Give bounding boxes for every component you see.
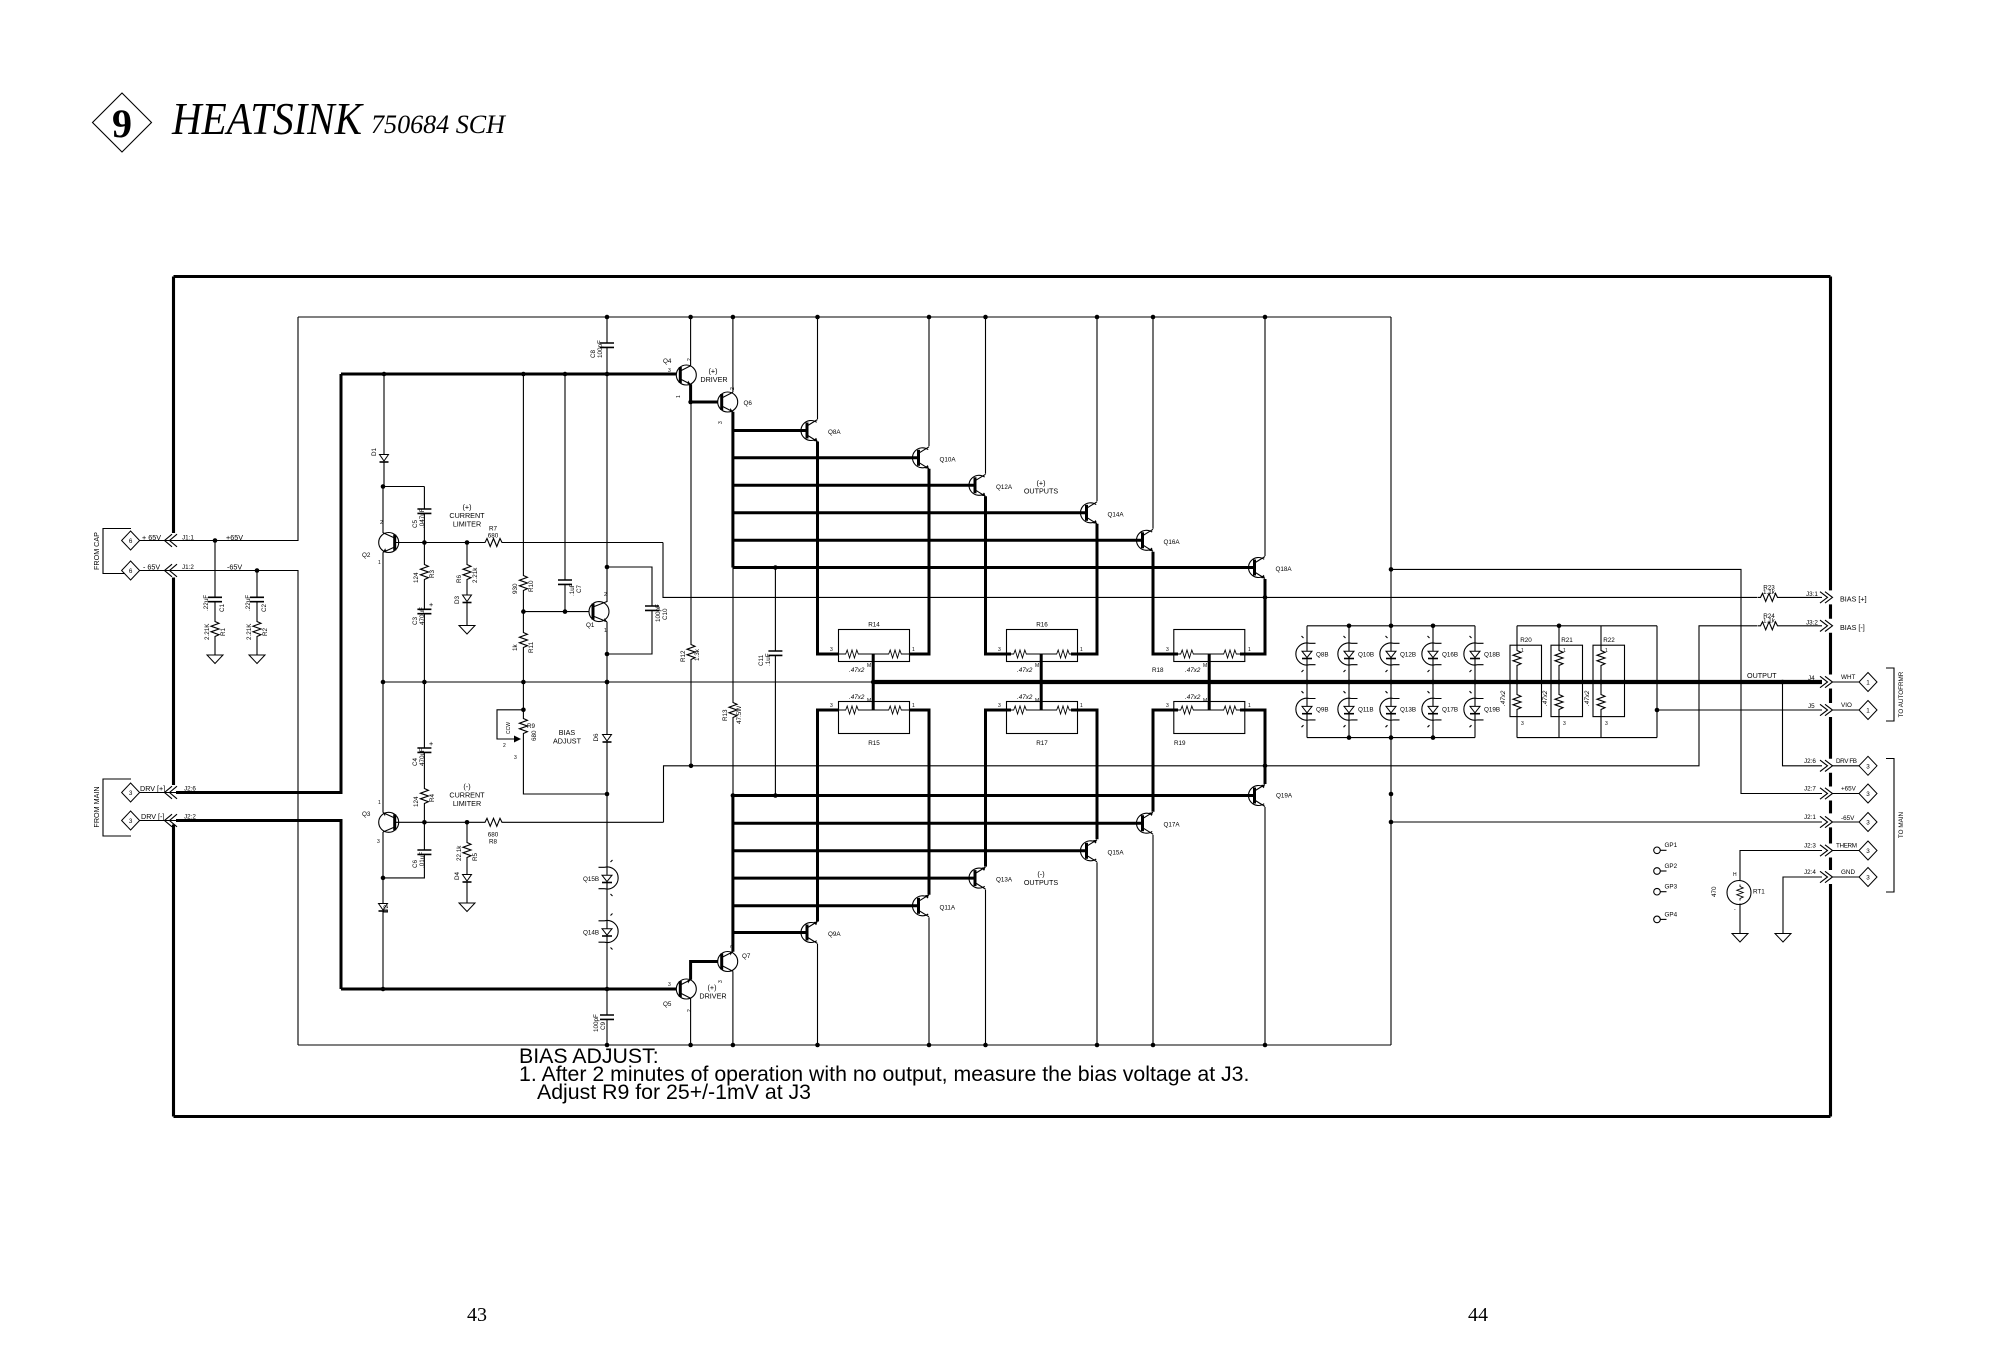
svg-text:C10: C10 [662, 608, 669, 620]
wire Q15A collector [1096, 862, 1098, 1045]
wire Q15A emitter to R17 [1071, 710, 1097, 839]
wire Q17A emitter to R19 [1153, 710, 1178, 812]
ground below R2 [249, 655, 265, 664]
svg-text:M: M [1035, 698, 1039, 704]
svg-text:Q19A: Q19A [1276, 793, 1293, 800]
label J5 VIO [1808, 702, 1852, 710]
connector J1:2 diamond 6 [122, 561, 140, 580]
wire -65V bottom rail [298, 1044, 1391, 1046]
svg-text:-65V: -65V [227, 562, 242, 571]
ground below D3 [459, 626, 475, 635]
wire Q8A emitter to R14 [818, 442, 840, 655]
transistor Q2 [362, 487, 399, 683]
svg-text:R17: R17 [1036, 740, 1048, 747]
wire R15 center tap [872, 682, 875, 710]
node C11 bottom [773, 793, 778, 798]
wire B-grid center column [1390, 569, 1392, 1045]
connector J2:6 diamond 3 [1859, 756, 1877, 775]
chevron J2:3 [1820, 845, 1833, 856]
svg-text:3: 3 [1166, 703, 1169, 709]
wire Q14A emitter to R16 [1071, 524, 1097, 654]
node Q1 emitter rail [605, 680, 610, 685]
svg-text:9: 9 [112, 101, 132, 146]
node Q13A collector [983, 1043, 988, 1048]
svg-text:Adjust R9 for 25+/-1mV at J3: Adjust R9 for 25+/-1mV at J3 [537, 1080, 811, 1104]
svg-text:CCW: CCW [506, 722, 512, 734]
label (+) current limiter [449, 503, 485, 529]
svg-text:R8: R8 [489, 839, 498, 846]
svg-text:.47x2: .47x2 [849, 694, 865, 701]
wire R16 center tap [1040, 654, 1043, 682]
node R10/R11 [521, 609, 526, 614]
svg-text:Q13B: Q13B [1400, 707, 1416, 714]
svg-text:124: 124 [413, 796, 420, 807]
svg-text:RT1: RT1 [1753, 889, 1765, 896]
svg-text:1: 1 [378, 560, 381, 566]
node Q11A collector [927, 1043, 932, 1048]
svg-text:.1uF: .1uF [765, 653, 772, 666]
svg-text:3: 3 [830, 647, 833, 653]
label (-) driver [699, 983, 726, 1001]
wire DRV FB tap [1783, 682, 1823, 766]
node Q8A collector [815, 315, 820, 320]
transistor Q4 [663, 358, 696, 398]
svg-text:Q18A: Q18A [1276, 566, 1293, 573]
svg-text:Q6: Q6 [744, 400, 753, 407]
svg-text:1: 1 [912, 647, 915, 653]
svg-text:+65V: +65V [1841, 786, 1857, 793]
node B-grid column mark [1389, 792, 1394, 797]
resistor R21 [1542, 624, 1583, 738]
wire GND line [1783, 877, 1822, 934]
transistor Q10B [1338, 624, 1374, 738]
chevron J2:6 [165, 786, 178, 799]
svg-text:R2: R2 [262, 627, 269, 636]
capacitor C10 [607, 567, 669, 654]
svg-text:3: 3 [668, 368, 671, 374]
svg-text:680: 680 [531, 730, 538, 741]
svg-text:OUTPUTS: OUTPUTS [1024, 487, 1059, 496]
chevron J2:1 [1820, 816, 1833, 827]
wire bias- sense line [664, 626, 1758, 823]
capacitor C8 [590, 317, 614, 374]
wire THERM line [1740, 851, 1822, 882]
svg-text:3: 3 [998, 703, 1001, 709]
resistor R1 [204, 619, 227, 655]
wire Q5 emitter [690, 998, 692, 1045]
wire (-) drive rail thick [341, 988, 676, 991]
svg-text:3: 3 [830, 703, 833, 709]
node Q19A emitter bias- tap [1263, 764, 1268, 769]
wire R-grid right leg [1656, 626, 1658, 738]
diode D4 [454, 869, 472, 903]
wire J1:1 entry [140, 540, 215, 542]
resistor R8 [482, 818, 505, 845]
wire Q4 collector [690, 317, 692, 366]
connector J2:4 diamond 3 [1859, 868, 1877, 887]
svg-text:J3:2: J3:2 [1806, 619, 1818, 626]
svg-text:2.21K: 2.21K [204, 623, 211, 640]
diode D3 [454, 595, 472, 626]
svg-text:Q3: Q3 [362, 811, 371, 818]
svg-text:Q2: Q2 [362, 552, 371, 559]
label J4 WHT [1808, 674, 1855, 682]
svg-text:R21: R21 [1561, 637, 1573, 644]
svg-text:.47x2: .47x2 [849, 667, 865, 674]
wire R-grid bottom bus [1517, 737, 1657, 739]
svg-text:.22uF: .22uF [203, 595, 210, 611]
node base/C4 [422, 820, 427, 825]
wire DRV- entry [140, 820, 176, 822]
svg-text:D2: D2 [383, 904, 390, 913]
svg-text:Q8B: Q8B [1316, 652, 1329, 659]
label R19 value [1185, 694, 1207, 704]
wire Q10A collector [928, 317, 930, 446]
wire J1:2 entry [140, 570, 257, 572]
wire (+) drive rail thick [341, 373, 676, 376]
svg-text:1: 1 [1080, 703, 1083, 709]
svg-text:Q1: Q1 [586, 622, 595, 629]
chevron J2:2 [165, 814, 178, 827]
transistor Q1 [586, 592, 609, 682]
svg-text:J2:1: J2:1 [1804, 814, 1816, 821]
transistor Q9A [801, 922, 841, 944]
transistor Q16A [1136, 529, 1180, 551]
transistor Q11A [912, 895, 955, 917]
resistor R19 [1166, 702, 1251, 748]
svg-text:GP1: GP1 [1665, 842, 1678, 849]
svg-text:1.1k: 1.1k [1763, 618, 1776, 625]
transistor Q16B [1422, 624, 1458, 738]
node base/R5 [465, 820, 470, 825]
wire J2:7 to diamond [1832, 793, 1859, 795]
wire J2:4 to diamond [1832, 876, 1859, 878]
wire (-) ladder rail 3 [733, 849, 1086, 852]
svg-text:BIAS [-]: BIAS [-] [1840, 623, 1865, 632]
svg-text:2.21K: 2.21K [246, 623, 253, 640]
wire Q16A emitter to R18 [1153, 552, 1178, 654]
svg-text:Q4: Q4 [663, 358, 672, 365]
svg-text:R12: R12 [680, 650, 687, 662]
bracket TO AUTOFRMR [1886, 668, 1905, 721]
label J3:1 BIAS+ [1806, 591, 1867, 604]
test point GP4 [1654, 911, 1678, 922]
resistor R18 [1166, 630, 1251, 662]
svg-text:100pF: 100pF [593, 1014, 600, 1032]
node base/C5 [422, 540, 427, 545]
svg-text:Q16B: Q16B [1442, 652, 1458, 659]
svg-text:LIMITER: LIMITER [453, 799, 481, 808]
svg-text:Q11A: Q11A [940, 904, 956, 911]
svg-text:M: M [1203, 698, 1207, 704]
svg-text:Q18B: Q18B [1484, 652, 1500, 659]
svg-text:GND: GND [1841, 869, 1855, 876]
ground below D4 [459, 903, 475, 912]
ground below GND line [1775, 934, 1791, 943]
svg-text:1: 1 [912, 703, 915, 709]
chevron J1:2 [165, 564, 178, 577]
chevron J5 [1820, 704, 1833, 715]
resistor R12 [680, 402, 701, 766]
svg-text:D1: D1 [371, 447, 378, 456]
capacitor C2 [245, 571, 268, 620]
wire R17 center tap [1040, 682, 1043, 710]
label (+) outputs [1024, 479, 1059, 496]
svg-text:470uF: 470uF [419, 607, 426, 625]
transistor Q12B [1380, 624, 1416, 673]
FROM MAIN bracket [92, 779, 131, 836]
bracket TO MAIN [1886, 759, 1905, 893]
node D1 top [382, 372, 387, 377]
svg-text:1k: 1k [512, 643, 519, 651]
capacitor C1 [203, 541, 226, 620]
resistor R17 [998, 702, 1083, 748]
svg-text:930: 930 [512, 583, 519, 594]
wire DRV- thick to (-) driver rail [176, 821, 341, 990]
svg-text:D4: D4 [454, 871, 461, 880]
node Q9A collector [815, 1043, 820, 1048]
wire Q7 collector ladder vertical [731, 796, 734, 952]
test point GP2 [1654, 863, 1678, 874]
resistor R5 [456, 822, 479, 869]
wire Q2 collector top link [383, 486, 424, 488]
svg-text:R7: R7 [489, 526, 498, 533]
svg-text:.47x2: .47x2 [1584, 690, 1591, 706]
wire (-) ladder rail 6 [733, 931, 807, 934]
svg-text:2: 2 [380, 520, 383, 526]
svg-text:+ 65V: + 65V [142, 533, 161, 542]
svg-text:ADJUST: ADJUST [553, 737, 582, 746]
wire (-) ladder rail 1 [733, 794, 1254, 797]
node tap R18/R19 [1207, 680, 1212, 685]
svg-text:J2:7: J2:7 [1804, 786, 1816, 793]
svg-text:J2:6: J2:6 [1804, 758, 1816, 765]
svg-text:3: 3 [718, 980, 724, 983]
wire (-) ladder rail 5 [733, 904, 918, 907]
wire Q5 collector to Q7 base [691, 962, 722, 980]
node R11 bottom [521, 680, 526, 685]
svg-text:C4: C4 [412, 757, 419, 766]
svg-text:1: 1 [1563, 648, 1566, 654]
transistor Q17B [1422, 680, 1458, 740]
wire -65V line [1391, 821, 1822, 823]
node Q7 emitter rail [731, 1043, 736, 1048]
svg-text:M: M [867, 698, 871, 704]
capacitor C6 [383, 822, 431, 878]
wire Q10A emitter to R14 [909, 469, 929, 654]
svg-text:3: 3 [1866, 848, 1870, 855]
note BIAS ADJUST [519, 1044, 1249, 1104]
wire DRV+ thick to (+) driver rail [176, 374, 341, 793]
svg-text:R1: R1 [220, 627, 227, 636]
svg-text:VIO: VIO [1841, 702, 1852, 709]
node Q18A collector [1263, 315, 1268, 320]
svg-text:GP3: GP3 [1665, 884, 1678, 891]
wire Q2 base line [395, 542, 663, 544]
node tap R16/R17 [1039, 680, 1044, 685]
svg-text:R6: R6 [456, 574, 463, 583]
svg-text:.47x2: .47x2 [1542, 690, 1549, 706]
connector J2:2 diamond 3 [122, 811, 140, 830]
svg-text:Q11B: Q11B [1358, 707, 1374, 714]
svg-text:6: 6 [129, 538, 133, 545]
wire J2:6 to diamond [1832, 765, 1859, 767]
node tap R14/R15 [871, 680, 876, 685]
svg-text:J2:4: J2:4 [1804, 869, 1816, 876]
connector J4 diamond 1 [1859, 673, 1877, 692]
transistor Q9B [1296, 680, 1329, 728]
transistor Q11B [1338, 680, 1374, 740]
svg-text:R3: R3 [429, 569, 436, 578]
resistor R22 [1584, 626, 1625, 738]
svg-text:1.3k: 1.3k [694, 648, 701, 661]
wire Q9A collector [817, 944, 819, 1045]
wire (+) ladder rail 6 [733, 566, 1254, 569]
svg-text:Q17B: Q17B [1442, 707, 1458, 714]
svg-text:R19: R19 [1174, 740, 1186, 747]
svg-text:OUTPUT: OUTPUT [1747, 671, 1777, 680]
svg-text:R18: R18 [1152, 667, 1164, 674]
transistor Q7 [718, 945, 751, 983]
resistor R15 [830, 702, 915, 748]
node Q17A collector [1151, 1043, 1156, 1048]
capacitor C7 [558, 374, 583, 612]
wire Q12A collector [985, 317, 987, 474]
svg-text:Q15B: Q15B [583, 876, 599, 883]
svg-text:OUTPUTS: OUTPUTS [1024, 878, 1059, 887]
svg-text:100pF: 100pF [655, 604, 662, 622]
chevron J2:4 [1820, 871, 1833, 882]
label R16 value [1017, 663, 1039, 674]
svg-text:FROM MAIN: FROM MAIN [92, 786, 101, 827]
node Q14A collector [1095, 315, 1100, 320]
svg-text:D3: D3 [454, 595, 461, 604]
svg-text:.47x2: .47x2 [1017, 667, 1033, 674]
wire R-grid top bus [1517, 625, 1657, 627]
wire Q13A emitter to R17 [986, 710, 1012, 867]
svg-text:C3: C3 [412, 616, 419, 625]
wire Q16A collector [1152, 317, 1154, 529]
wire R16 terminals [986, 653, 1098, 656]
svg-text:J2:3: J2:3 [1804, 843, 1816, 850]
wire Q7 emitter [732, 971, 734, 1045]
resistor R2 [246, 619, 269, 655]
svg-text:+: + [429, 600, 433, 609]
chevron J3:1 [1820, 592, 1833, 603]
diode D6 [593, 682, 612, 794]
svg-text:Q16A: Q16A [1164, 539, 1181, 546]
ground below RT1 [1732, 934, 1748, 943]
wire J2:1 to diamond [1832, 821, 1859, 823]
svg-text:3: 3 [129, 818, 133, 825]
svg-text:C2: C2 [261, 603, 268, 612]
svg-text:2: 2 [604, 592, 607, 598]
wire (-) ladder rail 2 [733, 822, 1142, 825]
svg-text:2: 2 [503, 743, 506, 749]
node C10 bottom [605, 652, 610, 657]
wire Q9A emitter to R15 [818, 710, 840, 922]
svg-text:2: 2 [687, 1009, 693, 1012]
transistor Q8A [801, 420, 841, 442]
svg-text:J4: J4 [1808, 675, 1815, 682]
svg-text:1: 1 [676, 395, 682, 398]
node C9 top [605, 987, 610, 992]
node C7 bottom [563, 609, 568, 614]
label R14 value [849, 663, 871, 674]
wire (-) ladder rail 4 [733, 877, 975, 880]
node -65V tap [1389, 820, 1394, 825]
wire +65V to inner box [215, 317, 298, 541]
svg-text:6: 6 [129, 568, 133, 575]
svg-text:C9: C9 [600, 1021, 607, 1030]
wire Q17A collector [1152, 835, 1154, 1045]
resistor R20 [1500, 626, 1542, 738]
svg-text:R4: R4 [429, 793, 436, 802]
schematic outer border frame [174, 277, 1831, 1117]
wire Q8A collector [817, 317, 819, 419]
svg-text:2.21k: 2.21k [472, 567, 479, 583]
node C9 bottom [605, 1043, 610, 1048]
svg-text:750684 SCH: 750684 SCH [371, 110, 506, 139]
capacitor C9 [593, 989, 614, 1045]
transistor Q10A [912, 447, 956, 469]
label R17 value [1017, 694, 1039, 704]
transistor Q12A [969, 474, 1013, 496]
transistor Q5 [663, 979, 696, 1012]
svg-text:+: + [429, 739, 433, 748]
svg-text:M: M [1035, 663, 1039, 669]
transistor Q13B [1380, 680, 1416, 740]
chevron J1:1 [165, 534, 178, 547]
label J3:2 BIAS- [1806, 619, 1865, 632]
wire J2:3 to diamond [1832, 850, 1859, 852]
svg-text:J3:1: J3:1 [1806, 591, 1818, 598]
wire B-grid top bus [1307, 625, 1475, 627]
label R15 value [849, 694, 871, 704]
svg-text:1: 1 [1521, 648, 1524, 654]
chevron J2:6 [1820, 760, 1833, 771]
svg-text:Q8A: Q8A [828, 429, 841, 436]
resistor R4 [413, 786, 436, 822]
node Q3 collector [381, 876, 386, 881]
node Q4 emitter R12 tap [688, 400, 693, 405]
svg-text:M: M [1203, 663, 1207, 669]
wire (+) ladder rail 3 [733, 484, 975, 487]
node C3 bottom [422, 680, 427, 685]
wire Q19A emitter to R19 [1240, 710, 1265, 784]
svg-text:3: 3 [1866, 875, 1870, 882]
svg-text:Q9B: Q9B [1316, 707, 1329, 714]
resistor R16 [998, 622, 1083, 662]
svg-text:R11: R11 [528, 641, 535, 653]
svg-text:Q17A: Q17A [1164, 822, 1181, 829]
svg-text:J1:1: J1:1 [182, 535, 194, 542]
svg-text:GP4: GP4 [1665, 911, 1678, 918]
svg-text:.047uF: .047uF [419, 508, 426, 528]
svg-text:BIAS [+]: BIAS [+] [1840, 594, 1867, 603]
node D2 bottom [381, 987, 386, 992]
wire Q13A collector [985, 890, 987, 1045]
capacitor C11 [758, 568, 782, 796]
wire (+) ladder rail 2 [733, 456, 918, 459]
transistor Q18B [1464, 626, 1500, 738]
svg-text:TO MAIN: TO MAIN [1898, 811, 1905, 838]
transistor Q18A [1248, 557, 1292, 579]
wire +65V right feed [1391, 317, 1822, 794]
transistor Q14A [1080, 502, 1124, 524]
svg-text:DRIVER: DRIVER [699, 992, 726, 1001]
svg-text:Q12A: Q12A [996, 484, 1013, 491]
